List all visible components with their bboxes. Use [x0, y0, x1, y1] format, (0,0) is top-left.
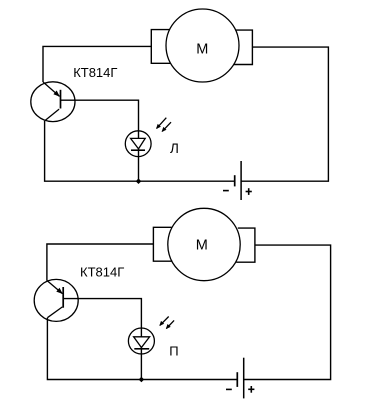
label Л (photodiode VD1)	[170, 141, 179, 156]
wire: motor M1 left brush to top-left corner down to transistor VT1 emitter	[43, 46, 151, 82]
battery GB1	[235, 161, 241, 200]
wire: photodiode VD1 cathode down to bottom rail	[138, 149, 140, 181]
battery GB2	[237, 358, 243, 399]
svg-text:КТ814Г: КТ814Г	[80, 265, 124, 280]
label VT2 value КТ814Г	[80, 265, 124, 280]
label П (photodiode VD2)	[169, 344, 178, 359]
wire: motor M2 right brush to top-right corner down to battery GB2 plus	[244, 245, 331, 379]
svg-text:П: П	[169, 344, 178, 359]
photodiode VD2	[128, 328, 154, 354]
wire: motor M2 left brush to top-left corner down to transistor VT2 emitter	[47, 244, 153, 281]
label minus terminal GB1	[223, 190, 229, 192]
light arrow 2 into VD2	[166, 320, 174, 329]
light arrow 1 into VD2	[159, 317, 168, 327]
junction: VD1 cathode with bottom rail	[136, 178, 142, 184]
wire: motor M1 right brush to top-right corner down to battery GB1 plus	[241, 47, 328, 181]
wire: photodiode VD2 cathode down to bottom rail	[140, 348, 142, 380]
transistor VT1 КТ814Г	[31, 82, 75, 122]
svg-text:М: М	[196, 41, 208, 57]
motor M1	[151, 9, 252, 82]
wire: transistor VT1 base to photodiode VD1 anode	[61, 100, 139, 138]
junction: VD2 cathode with bottom rail	[139, 377, 145, 383]
label VT1 value КТ814Г	[73, 65, 117, 80]
light arrow 2 into VD1	[162, 122, 171, 132]
light arrow 1 into VD1	[156, 118, 166, 129]
svg-text:Л: Л	[170, 141, 179, 156]
wire: transistor VT2 collector down to bottom-left corner then to battery GB2 minus	[47, 318, 237, 380]
label plus terminal GB1	[246, 188, 252, 195]
label minus terminal GB2	[226, 388, 232, 390]
wire: transistor VT2 base to photodiode VD2 anode	[63, 299, 141, 337]
label plus terminal GB2	[248, 386, 254, 393]
transistor VT2 КТ814Г	[34, 279, 78, 321]
motor M2	[153, 208, 255, 280]
wire: transistor VT1 collector down to bottom-left corner then to battery GB1 minus	[45, 121, 235, 181]
photodiode VD1	[125, 131, 151, 157]
svg-text:КТ814Г: КТ814Г	[73, 65, 117, 80]
svg-text:М: М	[196, 238, 208, 254]
